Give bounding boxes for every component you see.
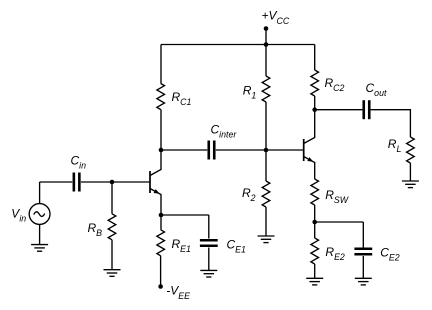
wire <box>160 110 162 151</box>
node -VEE terminal <box>158 284 163 289</box>
wire <box>161 149 207 151</box>
label -VEE <box>166 284 190 302</box>
svg-text:RSW: RSW <box>325 188 349 205</box>
ground <box>258 236 275 243</box>
wire <box>362 256 364 278</box>
wire <box>265 150 267 181</box>
transistor Q2 <box>304 110 315 179</box>
ground <box>200 270 217 277</box>
wire <box>160 45 162 84</box>
svg-text:RB: RB <box>88 221 103 238</box>
label Cin <box>71 154 87 171</box>
label RC2 <box>325 76 345 93</box>
wire <box>208 248 210 271</box>
wire <box>314 96 316 110</box>
wire <box>160 256 162 287</box>
node R1-R2-base junction <box>264 148 269 153</box>
wire <box>362 222 364 249</box>
svg-text:RC2: RC2 <box>325 76 345 93</box>
svg-text:RL: RL <box>388 137 402 154</box>
capacitor Cinter <box>209 141 215 160</box>
resistor RE1 <box>157 230 165 256</box>
label +VCC <box>262 8 290 26</box>
label R1 <box>243 84 257 101</box>
node +VCC terminal <box>264 26 269 31</box>
source Vin <box>29 204 50 225</box>
capacitor CE2 <box>354 249 372 255</box>
label RE2 <box>325 245 345 262</box>
label CE2 <box>380 245 400 262</box>
svg-text:CE2: CE2 <box>380 245 400 262</box>
resistor RE2 <box>311 238 319 264</box>
capacitor Cin <box>74 173 80 192</box>
ground <box>306 278 323 285</box>
ground <box>402 181 419 188</box>
label Vin <box>11 207 26 224</box>
wire <box>315 109 363 111</box>
ground <box>31 245 48 252</box>
wire <box>208 215 210 239</box>
label RSW <box>325 188 349 205</box>
svg-text:RC1: RC1 <box>172 90 192 107</box>
svg-text:Cout: Cout <box>366 81 387 98</box>
label CE1 <box>227 238 247 255</box>
resistor RL <box>407 137 415 163</box>
wire <box>265 207 267 236</box>
label RC1 <box>172 90 192 107</box>
wire <box>315 221 364 223</box>
svg-text:RE1: RE1 <box>172 237 192 254</box>
ground <box>104 270 121 277</box>
node Q1 emitter junction <box>159 213 164 218</box>
svg-text:Cin: Cin <box>71 154 87 171</box>
resistor RB <box>108 214 116 240</box>
node base junction <box>110 180 115 185</box>
svg-text:Cinter: Cinter <box>211 122 238 139</box>
label RE1 <box>172 237 192 254</box>
wire <box>111 240 113 270</box>
node Q1 collector junction <box>159 148 164 153</box>
wire <box>160 215 162 230</box>
node VCC rail junction <box>264 42 269 47</box>
resistor R1 <box>262 76 270 102</box>
resistor RC1 <box>157 84 165 110</box>
svg-text:+VCC: +VCC <box>262 8 290 26</box>
wire <box>314 205 316 222</box>
wire <box>39 182 41 204</box>
svg-text:R2: R2 <box>242 186 256 203</box>
capacitor CE1 <box>200 240 218 246</box>
label R2 <box>242 186 256 203</box>
svg-text:RE2: RE2 <box>325 245 345 262</box>
wire <box>314 45 316 71</box>
transistor Q1 <box>150 150 161 215</box>
label RB <box>88 221 103 238</box>
ground <box>355 278 372 285</box>
wire <box>371 110 411 137</box>
wire <box>265 45 267 77</box>
svg-text:CE1: CE1 <box>227 238 247 255</box>
wire <box>314 264 316 278</box>
wire <box>161 44 315 46</box>
wire <box>111 182 113 214</box>
label Cinter <box>211 122 238 139</box>
node emitter2 junction <box>312 220 317 225</box>
wire <box>39 224 41 244</box>
resistor R2 <box>262 181 270 207</box>
svg-text:-VEE: -VEE <box>166 284 190 302</box>
resistor RC2 <box>311 70 319 96</box>
resistor RSW <box>311 179 319 205</box>
wire <box>161 214 209 216</box>
wire <box>409 163 411 181</box>
wire <box>216 149 304 151</box>
svg-text:Vin: Vin <box>11 207 26 224</box>
wire <box>265 102 267 150</box>
wire <box>265 29 267 45</box>
label Cout <box>366 81 387 98</box>
label RL <box>388 137 402 154</box>
wire <box>314 222 316 238</box>
wire <box>81 181 150 183</box>
capacitor Cout <box>364 100 370 119</box>
node RC2 output junction <box>312 107 317 112</box>
svg-text:R1: R1 <box>243 84 257 101</box>
wire <box>40 181 73 183</box>
